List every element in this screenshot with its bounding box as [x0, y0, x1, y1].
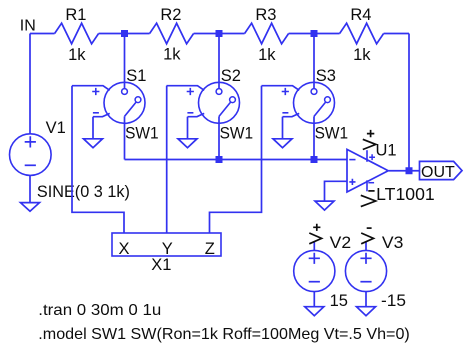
pin label Z of X1	[205, 240, 215, 258]
svg-text:IN: IN	[20, 18, 36, 35]
wire opamp output to OUT node	[389, 170, 420, 172]
switch S1 (SW1 voltage-controlled switch symbol)	[72, 82, 145, 123]
value 1k of R3	[258, 46, 276, 64]
op-amp U1 negative power pin stub	[367, 180, 374, 191]
wire S1 minus control down to ground	[92, 117, 94, 139]
wire S1 bottom to summing bus	[124, 116, 126, 159]
op-amp U1 triangle	[347, 149, 388, 192]
junction junction S3 on summing bus	[311, 156, 318, 163]
wire R4 right lead to feedback corner	[384, 33, 409, 35]
label X1	[151, 256, 171, 274]
label R2	[160, 6, 181, 24]
svg-text:LT1001: LT1001	[376, 184, 435, 204]
wire S2 bottom to summing bus	[218, 116, 220, 159]
net flag V+ at V2 top (rotated)	[309, 224, 321, 244]
svg-text:15: 15	[330, 292, 348, 310]
wire S3 minus control down to ground	[282, 117, 284, 139]
junction node R2/R3/S2	[216, 30, 223, 37]
label R1	[65, 6, 86, 24]
wire S2 minus control down to ground	[187, 117, 189, 139]
label S1	[126, 67, 146, 85]
wire V1 minus to ground	[29, 175, 31, 202]
pin label X of X1	[118, 240, 129, 258]
svg-text:S3: S3	[316, 67, 336, 85]
value 1k of R4	[353, 46, 371, 64]
svg-text:R1: R1	[65, 6, 86, 24]
wire IN corner down to V1 plus terminal	[29, 34, 31, 134]
label V3	[382, 234, 404, 252]
ground at opamp noninverting input	[315, 201, 334, 210]
svg-text:1k: 1k	[68, 46, 86, 64]
label R4	[350, 6, 371, 24]
svg-text:Z: Z	[205, 240, 215, 258]
ground at S1 minus control	[84, 139, 103, 148]
ground at S2 minus control	[178, 139, 197, 148]
voltage source V1 symbol	[10, 134, 52, 176]
wire V3 minus to ground	[365, 292, 367, 307]
svg-text:V1: V1	[46, 119, 66, 137]
wire opamp noninverting input stub	[325, 181, 348, 201]
junction junction at output node	[406, 167, 413, 174]
value SW1 of S3	[315, 125, 349, 143]
svg-text:.tran 0 30m 0 1u: .tran 0 30m 0 1u	[38, 302, 161, 319]
label V1	[46, 119, 66, 137]
net flag V- at V3 top (rotated)	[361, 228, 373, 244]
wire V3 top pin stub	[365, 241, 367, 250]
junction node R1/R2/S1	[121, 30, 128, 37]
svg-text:OUT: OUT	[421, 164, 455, 181]
svg-text:SINE(0 3 1k): SINE(0 3 1k)	[37, 183, 130, 201]
ground at V1	[21, 203, 40, 212]
value LT1001 of U1	[376, 184, 435, 204]
svg-text:V3: V3	[382, 234, 404, 252]
ground at S3 minus control	[273, 139, 292, 148]
wire S3 bottom to summing bus	[313, 116, 315, 159]
value SW1 of S2	[220, 125, 254, 143]
wire R2 to R3 (through node after R2)	[194, 33, 245, 35]
value 15 of V2	[330, 292, 348, 310]
svg-text:S2: S2	[221, 67, 241, 85]
wire S3 plus control to X1 pin Z	[210, 86, 262, 233]
wire V2 top pin stub	[313, 241, 315, 250]
wire summing bus S1 to opamp inverting input	[125, 159, 348, 161]
junction junction S2 on summing bus	[216, 156, 223, 163]
svg-text:1k: 1k	[353, 46, 371, 64]
svg-text:1k: 1k	[163, 46, 181, 64]
voltage source V3 symbol	[345, 250, 386, 291]
svg-text:SW1: SW1	[125, 125, 159, 143]
svg-text:R2: R2	[160, 6, 181, 24]
wire feedback from R4 down to output node	[408, 34, 410, 171]
value 1k of R2	[163, 46, 181, 64]
value 1k of R1	[68, 46, 86, 64]
label U1	[376, 142, 397, 160]
net flag V+ at op-amp top power pin (rotated)	[363, 130, 376, 150]
resistor R3	[245, 23, 289, 44]
svg-text:R3: R3	[255, 6, 276, 24]
value SINE(0 3 1k) of V1	[37, 183, 130, 201]
net flag OUT	[420, 161, 463, 180]
resistor R1	[55, 23, 99, 44]
svg-text:SW1: SW1	[315, 125, 349, 143]
directive .model SW1	[38, 326, 410, 343]
svg-text:X1: X1	[151, 256, 171, 274]
resistor R2	[150, 23, 194, 44]
voltage source V2 symbol	[294, 250, 335, 291]
subcircuit X1 box	[112, 233, 221, 256]
wire V2 minus to ground	[313, 292, 315, 307]
pin label Y of X1	[162, 240, 173, 258]
label S2	[221, 67, 241, 85]
net flag V- at op-amp bottom power pin (rotated)	[361, 191, 376, 207]
svg-text:.model SW1 SW(Ron=1k Roff=100M: .model SW1 SW(Ron=1k Roff=100Meg Vt=.5 V…	[38, 326, 410, 343]
net label IN	[20, 18, 36, 35]
svg-text:S1: S1	[126, 67, 146, 85]
wire IN corner to R1 left lead	[30, 33, 55, 35]
svg-text:U1: U1	[376, 142, 397, 160]
directive .tran	[38, 302, 161, 319]
resistor R4	[340, 23, 384, 44]
wire node2 down to S2 top contact	[218, 34, 220, 89]
wire R3 to R4 (through node after R3)	[289, 33, 340, 35]
svg-text:V2: V2	[330, 234, 352, 252]
ground at V3	[357, 307, 376, 316]
ground at V2	[305, 307, 324, 316]
wire node3 down to S3 top contact	[313, 34, 315, 89]
wire S1 plus control to X1 pin X	[72, 86, 124, 233]
value SW1 of S1	[125, 125, 159, 143]
svg-text:X: X	[118, 240, 129, 258]
svg-text:SW1: SW1	[220, 125, 254, 143]
label S3	[316, 67, 336, 85]
op-amp U1 positive power pin stub	[367, 150, 375, 162]
svg-text:-15: -15	[381, 292, 406, 310]
wire node1 down to S1 top contact	[124, 34, 126, 89]
value -15 of V3	[381, 292, 406, 310]
svg-text:1k: 1k	[258, 46, 276, 64]
label R3	[255, 6, 276, 24]
switch S3 (SW1 voltage-controlled switch symbol)	[262, 82, 335, 123]
wire R1 to R2 (through node after R1)	[99, 33, 150, 35]
switch S2 (SW1 voltage-controlled switch symbol)	[167, 82, 240, 123]
wire S2 plus control to X1 pin Y	[166, 86, 168, 233]
label V2	[330, 234, 352, 252]
junction node R3/R4/S3	[311, 30, 318, 37]
svg-text:R4: R4	[350, 6, 371, 24]
